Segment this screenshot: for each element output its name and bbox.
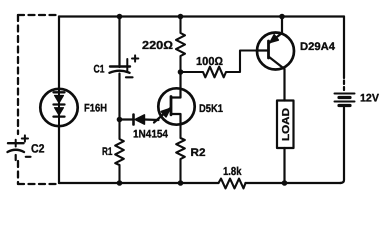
diode 1N4154 xyxy=(120,115,159,125)
wire D29A4 emitter to top rail xyxy=(281,17,283,34)
junction 220ohm/100ohm node xyxy=(178,69,184,75)
C1 polarity plus xyxy=(132,55,138,61)
svg-text:LOAD: LOAD xyxy=(281,108,292,141)
svg-text:100Ω: 100Ω xyxy=(196,56,223,68)
junction diode/C1/R1 node xyxy=(117,117,123,123)
wire F16H branch top xyxy=(58,17,60,89)
wire top rail xyxy=(59,15,344,17)
svg-text:D29A4: D29A4 xyxy=(300,41,336,53)
photocell F16H xyxy=(40,89,77,126)
junction R2 bottom rail xyxy=(178,180,184,186)
junction 220ohm top rail xyxy=(178,14,184,20)
resistor R2 xyxy=(176,125,185,183)
junction D29A4 emitter top rail xyxy=(279,14,285,20)
C2 polarity plus xyxy=(22,135,28,141)
resistor 220ohm xyxy=(176,17,185,73)
wire F16H branch bottom xyxy=(58,127,60,184)
wire bottom rail right of 1.8k xyxy=(246,182,342,184)
junction C1 top rail xyxy=(117,14,123,20)
svg-text:R2: R2 xyxy=(191,147,206,159)
wire load to bottom rail xyxy=(283,148,285,183)
wire C1 branch top xyxy=(118,17,120,68)
load box xyxy=(277,101,294,149)
battery 12V xyxy=(335,81,355,106)
svg-text:F16H: F16H xyxy=(84,103,107,115)
svg-text:220Ω: 220Ω xyxy=(142,40,173,52)
wire right rail upper (to battery) xyxy=(343,17,345,79)
C1 polarity minus xyxy=(126,76,133,78)
svg-text:C1: C1 xyxy=(94,64,105,76)
junction R1 bottom rail xyxy=(117,180,123,186)
wire C1 to diode node xyxy=(118,74,120,120)
transistor D29A4 (PNP) xyxy=(257,33,295,70)
wire D29A4 collector to load xyxy=(283,69,285,101)
svg-text:C2: C2 xyxy=(31,142,45,156)
C2 polarity minus xyxy=(26,156,31,158)
junction load bottom rail xyxy=(282,180,288,186)
resistor 100ohm xyxy=(181,51,257,78)
wire bottom rail left of 1.8k xyxy=(59,182,219,184)
capacitor C2 (on dashed left edge) xyxy=(8,140,25,160)
svg-text:D5K1: D5K1 xyxy=(199,103,223,115)
resistor 1.8k (in bottom rail) xyxy=(219,179,246,189)
dashed enclosure (sensor unit outline) xyxy=(18,15,57,184)
transistor D5K1 (UJT) xyxy=(154,88,195,125)
resistor R1 xyxy=(115,120,124,184)
wire D5K1 top lead to junction xyxy=(179,72,181,88)
wire right rail lower (battery to bottom rail) xyxy=(340,108,344,184)
capacitor C1 xyxy=(110,59,131,73)
svg-text:R1: R1 xyxy=(102,146,113,158)
svg-text:1N4154: 1N4154 xyxy=(133,129,169,141)
svg-text:12V: 12V xyxy=(360,93,380,105)
svg-text:1.8k: 1.8k xyxy=(223,166,242,178)
